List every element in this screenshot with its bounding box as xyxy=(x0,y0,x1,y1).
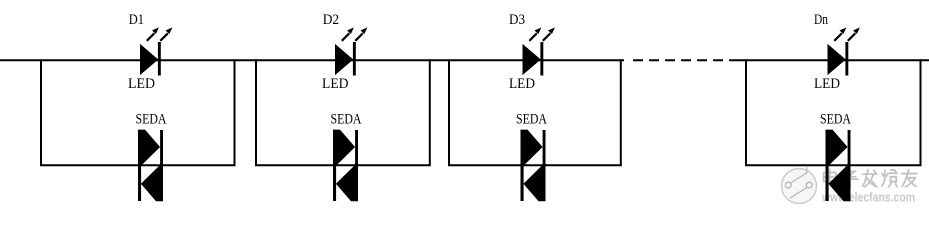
svg-text:SEDA: SEDA xyxy=(136,111,167,128)
watermark logo circle xyxy=(782,167,817,203)
box 1 right vertical wire xyxy=(234,59,236,165)
box 4 right vertical wire xyxy=(920,59,922,165)
LED D1 anode triangle xyxy=(141,45,158,74)
LED light arrow 2 (D2) xyxy=(355,27,367,40)
LED light arrow 2 (D1) xyxy=(160,27,172,40)
watermark Chinese characters (dian zi fa shao you) xyxy=(824,169,837,183)
SEDA suppressor left bar (D3 unit) xyxy=(521,130,524,201)
SEDA suppressor right bar (Dn unit) xyxy=(848,130,851,201)
SEDA upper diode triangle (D2 unit) xyxy=(333,130,355,166)
SEDA suppressor left bar (D2 unit) xyxy=(333,130,336,201)
LED D2 anode triangle xyxy=(336,45,353,74)
SEDA lower diode triangle (D2 unit) xyxy=(336,165,358,201)
LED Dn anode triangle xyxy=(828,45,845,74)
svg-text:Dn: Dn xyxy=(814,11,828,28)
box 4 left vertical wire xyxy=(745,59,747,165)
SEDA suppressor right bar (D3 unit) xyxy=(543,130,546,201)
box 2 bottom wire xyxy=(255,164,431,166)
svg-text:LED: LED xyxy=(322,75,349,92)
main top wire dashed continuation xyxy=(633,59,740,61)
SEDA upper diode triangle (D1 unit) xyxy=(138,130,160,166)
LED Dn cathode bar xyxy=(845,42,848,76)
svg-text:LED: LED xyxy=(128,75,155,92)
SEDA upper diode triangle (D3 unit) xyxy=(521,130,543,166)
SEDA suppressor left bar (Dn unit) xyxy=(826,130,829,201)
SEDA lower diode triangle (D3 unit) xyxy=(523,165,545,201)
SEDA suppressor left bar (D1 unit) xyxy=(138,130,141,201)
svg-text:LED: LED xyxy=(509,75,535,92)
SEDA lower diode triangle (Dn unit) xyxy=(828,165,850,201)
box 4 bottom wire xyxy=(745,164,922,166)
main top wire (left solid span) xyxy=(0,59,624,61)
LED light arrow 2 (Dn) xyxy=(848,27,860,40)
box 1 bottom wire xyxy=(40,164,236,166)
svg-text:LED: LED xyxy=(814,75,840,92)
SEDA upper diode triangle (Dn unit) xyxy=(826,130,848,166)
SEDA lower diode triangle (D1 unit) xyxy=(141,165,163,201)
SEDA suppressor right bar (D2 unit) xyxy=(355,130,358,201)
box 2 left vertical wire xyxy=(255,59,257,165)
svg-text:SEDA: SEDA xyxy=(331,111,362,128)
LED D2 cathode bar xyxy=(353,42,356,76)
LED light arrow 2 (D3) xyxy=(543,27,555,40)
box 2 right vertical wire xyxy=(429,59,431,165)
LED light arrow 1 (Dn) xyxy=(834,27,846,40)
svg-text:SEDA: SEDA xyxy=(516,111,547,128)
svg-text:www.elecfans.com: www.elecfans.com xyxy=(821,190,915,205)
LED light arrow 1 (D2) xyxy=(342,27,354,40)
svg-text:D3: D3 xyxy=(509,11,525,28)
LED D3 anode triangle xyxy=(523,45,540,74)
main top wire (right solid span) xyxy=(738,59,929,61)
LED light arrow 1 (D3) xyxy=(529,27,541,40)
svg-text:D2: D2 xyxy=(323,11,339,28)
LED D1 cathode bar xyxy=(158,42,161,76)
box 3 right vertical wire xyxy=(620,59,622,165)
SEDA suppressor right bar (D1 unit) xyxy=(160,130,163,201)
LED D3 cathode bar xyxy=(540,42,543,76)
svg-text:D1: D1 xyxy=(129,11,144,28)
box 1 left vertical wire xyxy=(40,59,42,165)
svg-text:SEDA: SEDA xyxy=(820,111,851,128)
box 3 bottom wire xyxy=(448,164,622,166)
box 3 left vertical wire xyxy=(448,59,450,165)
LED light arrow 1 (D1) xyxy=(147,27,159,40)
